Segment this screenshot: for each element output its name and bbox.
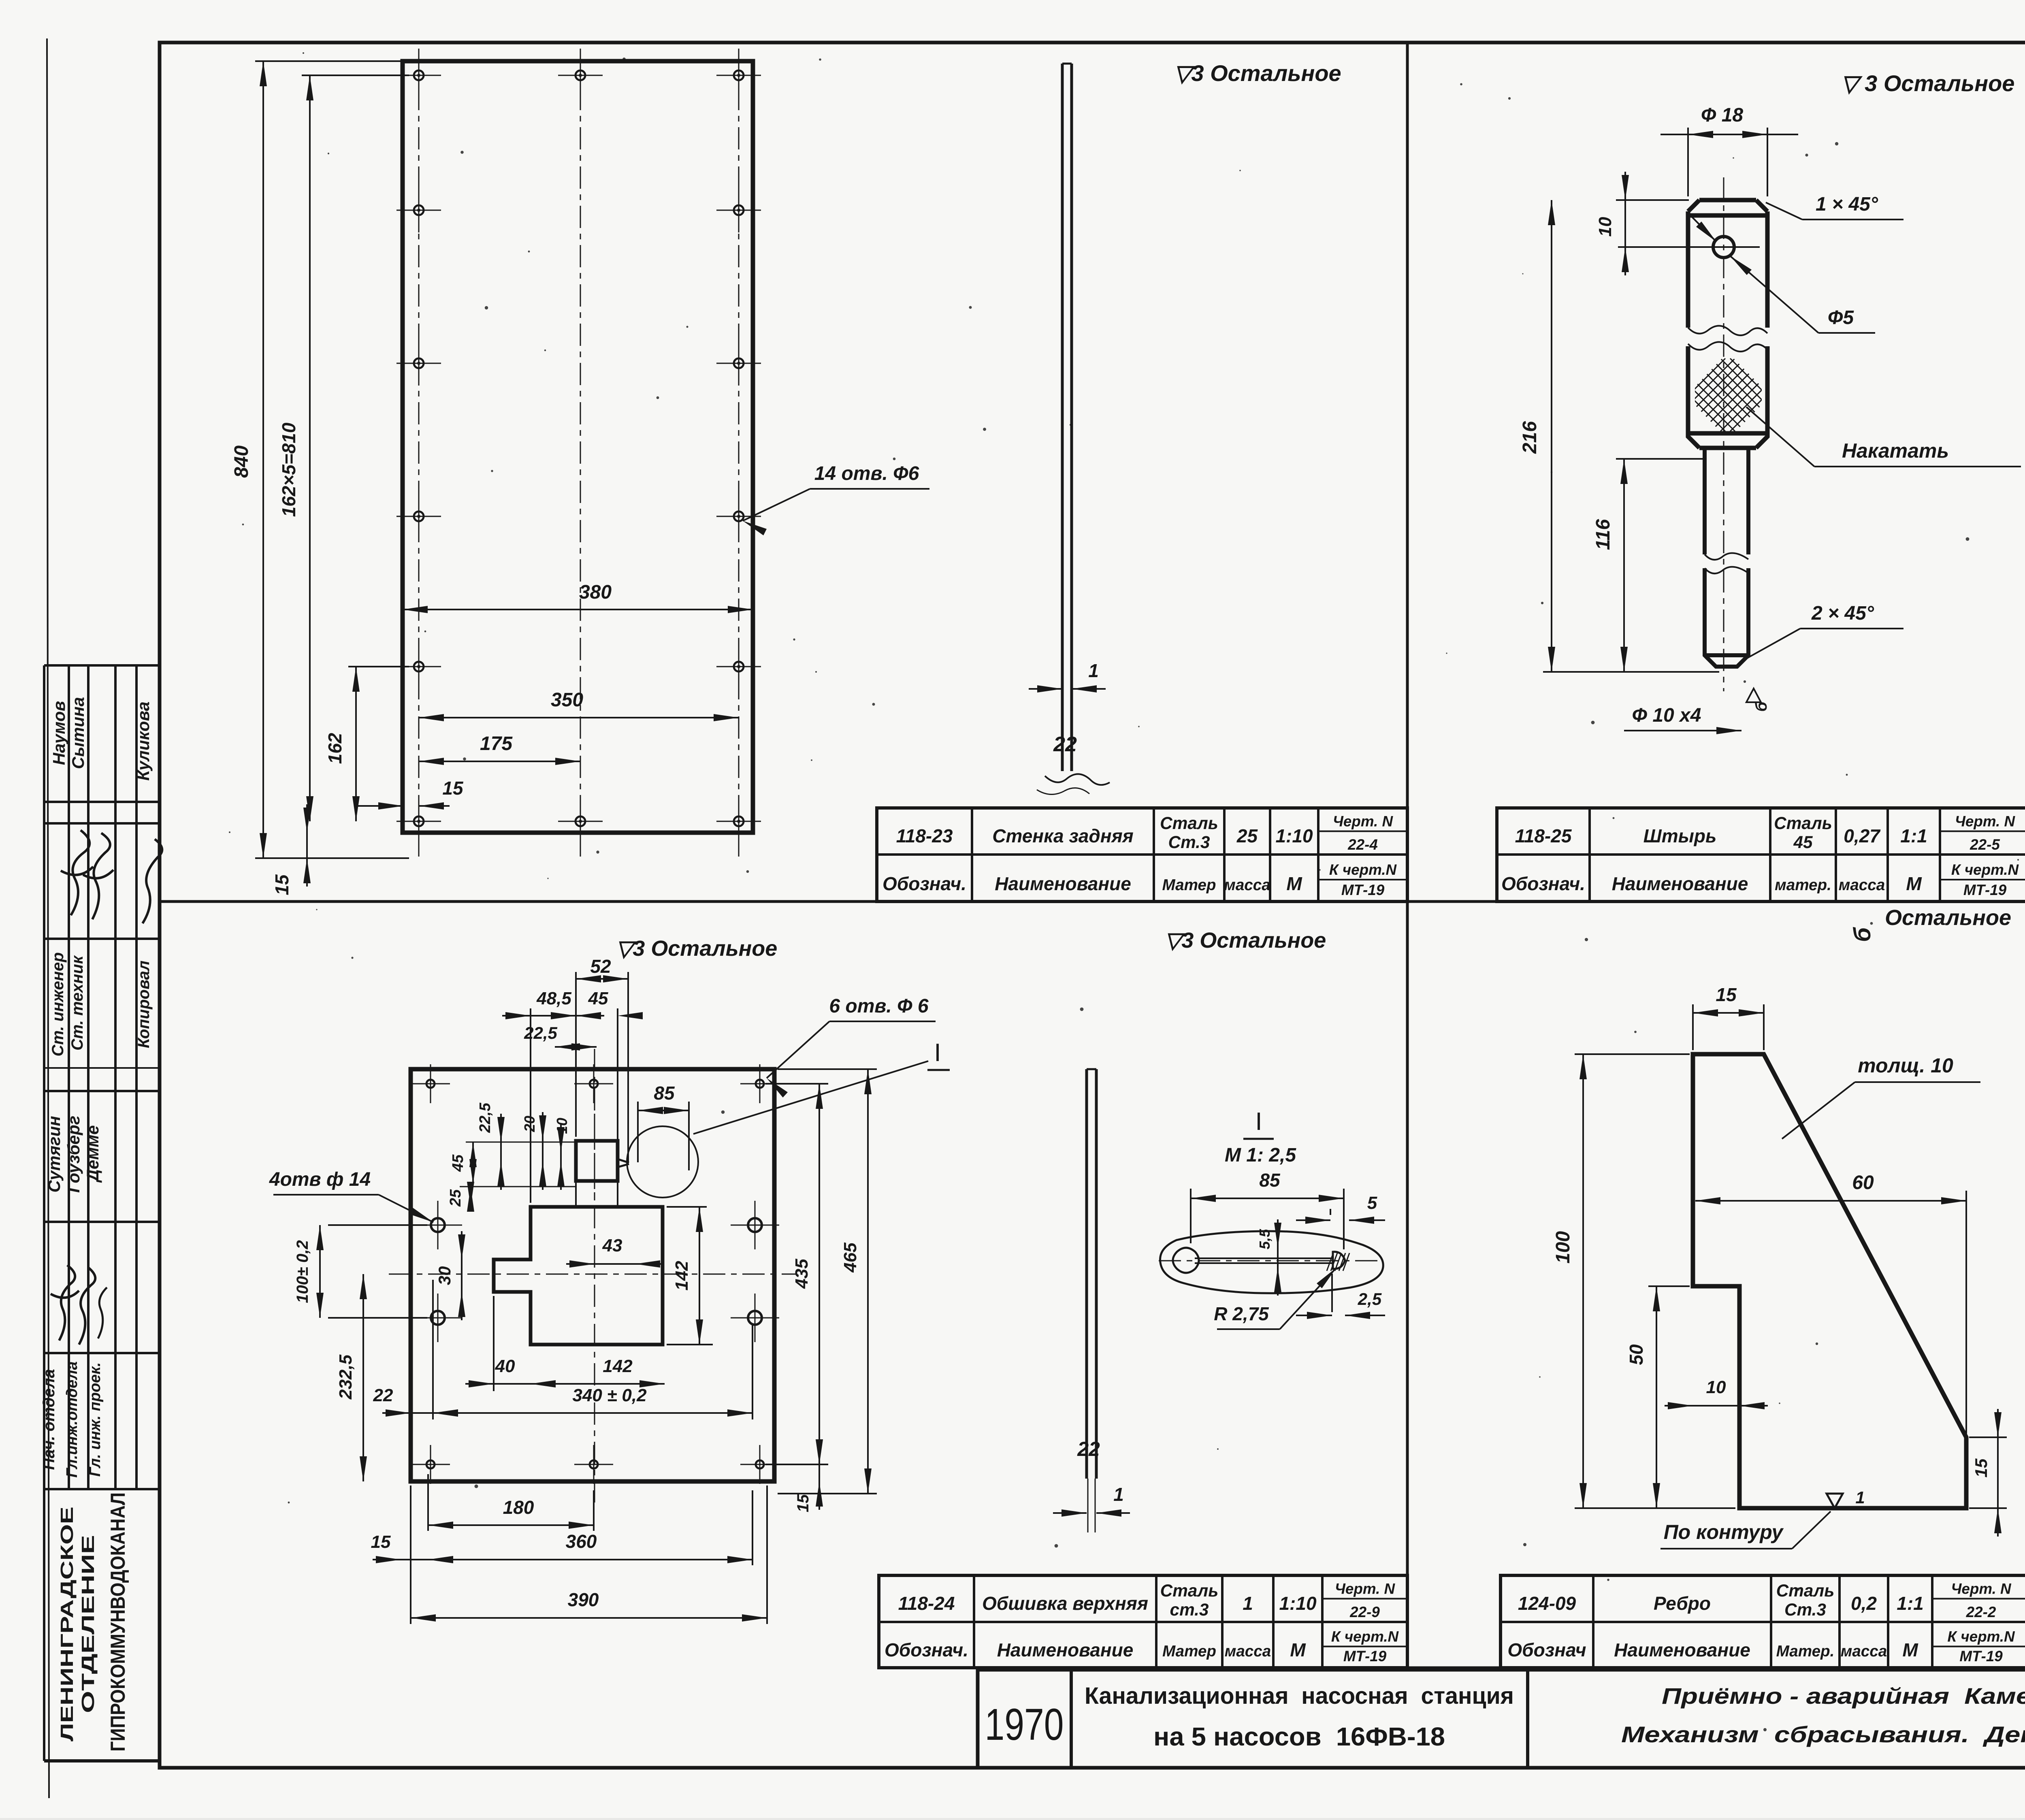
svg-text:масса: масса: [1225, 1643, 1271, 1660]
dimension 30: [461, 1260, 463, 1292]
svg-text:Штырь: Штырь: [1643, 825, 1717, 846]
svg-text:на 5 насосов 16ФВ-18: на 5 насосов 16ФВ-18: [1153, 1722, 1445, 1751]
svg-text:25: 25: [447, 1189, 464, 1207]
slot projection lines: [575, 1181, 577, 1207]
stamp table 118-25: [1497, 808, 2025, 901]
svg-text:МТ-19: МТ-19: [1959, 1648, 2003, 1664]
detail I view blob: [1160, 1231, 1383, 1293]
dimension 380: [403, 609, 753, 610]
svg-text:▽3 Остальное: ▽3 Остальное: [616, 936, 778, 961]
dimension 232,5: [362, 1274, 364, 1481]
side view thickness 1: [1053, 1512, 1087, 1514]
svg-text:Обшивка верхняя: Обшивка верхняя: [982, 1593, 1148, 1614]
dimension 142 horizontal: [531, 1383, 665, 1385]
dimension 162: [348, 666, 409, 667]
svg-text:Наименование: Наименование: [995, 873, 1131, 894]
svg-text:масса: масса: [1839, 876, 1885, 894]
plate 118-24 side view: [1085, 1069, 1088, 1479]
dimension 15 bottom horizontal: [356, 805, 403, 807]
svg-text:118-23: 118-23: [896, 825, 953, 846]
svg-text:R 2,75: R 2,75: [1214, 1303, 1269, 1324]
dimension 22: [411, 1412, 433, 1414]
svg-text:Обознач.: Обознач.: [882, 873, 966, 894]
plate 118-24 small holes f6: [426, 1080, 435, 1088]
svg-text:Черт. N: Черт. N: [1951, 1581, 2012, 1597]
svg-text:Наименование: Наименование: [1614, 1639, 1750, 1660]
svg-text:124-09: 124-09: [1518, 1593, 1576, 1614]
svg-text:10: 10: [1706, 1377, 1726, 1397]
detail dim 55: [1277, 1248, 1279, 1267]
detail I slit: [1173, 1248, 1199, 1273]
bottom row divider above title block: [879, 1667, 2025, 1669]
svg-text:К черт.N: К черт.N: [1331, 1628, 1399, 1645]
svg-text:1970: 1970: [985, 1700, 1064, 1750]
svg-text:б: б: [1849, 927, 1876, 942]
svg-text:15: 15: [794, 1494, 812, 1512]
svg-text:Нач. отдела: Нач. отдела: [40, 1369, 58, 1470]
svg-text:15: 15: [1716, 984, 1737, 1005]
sidebar signatures row 1: [61, 830, 93, 915]
dimension 465: [778, 1068, 877, 1070]
dimension 48,5 and 45: [530, 1008, 531, 1203]
svg-text:К черт.N: К черт.N: [1951, 861, 2019, 878]
svg-text:85: 85: [654, 1083, 675, 1104]
svg-text:22-5: 22-5: [1970, 836, 2000, 853]
pin break line 2: [1705, 553, 1748, 560]
dimension 175: [419, 761, 580, 762]
svg-text:Демме: Демме: [83, 1125, 102, 1183]
dimension 43: [595, 1263, 635, 1265]
svg-text:Приёмно - аварийная Камера: Приёмно - аварийная Камера: [1662, 1683, 2025, 1709]
svg-text:15: 15: [271, 874, 292, 895]
svg-text:Матер: Матер: [1162, 876, 1216, 894]
dimension 85: [637, 1102, 639, 1162]
plate 118-23 holes 14 otv f6: [414, 70, 424, 80]
svg-text:МТ-19: МТ-19: [1343, 1648, 1387, 1664]
svg-text:232,5: 232,5: [336, 1354, 356, 1400]
title block box: [978, 1670, 2025, 1768]
svg-text:Ф 10 х4: Ф 10 х4: [1632, 705, 1701, 726]
svg-text:118-24: 118-24: [898, 1593, 955, 1614]
svg-text:175: 175: [480, 733, 513, 754]
svg-text:Наименование: Наименование: [1612, 873, 1748, 894]
plate 118-24 centerlines: [594, 1049, 595, 1502]
svg-text:1: 1: [1243, 1593, 1253, 1614]
svg-text:1:10: 1:10: [1279, 1593, 1316, 1614]
svg-text:142: 142: [603, 1356, 633, 1376]
dimension 52: [575, 972, 577, 1137]
vertical divider 1: [1406, 43, 1409, 1668]
left small dims cluster: [466, 1142, 576, 1143]
svg-text:Наименование: Наименование: [997, 1639, 1134, 1660]
pin shaft lower with chamfer tip: [1705, 568, 1748, 667]
svg-text:Черт. N: Черт. N: [1335, 1581, 1396, 1597]
svg-text:360: 360: [566, 1531, 597, 1552]
svg-text:1:1: 1:1: [1897, 1593, 1923, 1614]
stamp table 118-24: [879, 1575, 1407, 1668]
rib dim 10: [1693, 1405, 1739, 1407]
svg-text:Сталь: Сталь: [1776, 1581, 1835, 1600]
svg-text:15: 15: [442, 778, 464, 799]
detail I circle: [627, 1126, 698, 1198]
rib dim 15 right: [1969, 1436, 2007, 1438]
plate 118-23 outline: [403, 61, 753, 833]
svg-text:б: б: [1752, 701, 1770, 712]
dimension 435: [765, 1083, 828, 1085]
pin head upper part: [1688, 200, 1767, 328]
svg-text:390: 390: [568, 1589, 599, 1610]
svg-text:Гоузберг: Гоузберг: [64, 1116, 83, 1193]
dimension 116: [1616, 458, 1703, 460]
svg-text:Обознач: Обознач: [1507, 1639, 1586, 1660]
sidebar stamp outer box: [44, 665, 160, 1761]
svg-text:40: 40: [495, 1356, 515, 1376]
rib 124-09 outline: [1693, 1054, 1966, 1508]
svg-text:10: 10: [1595, 217, 1615, 237]
svg-text:15: 15: [371, 1532, 391, 1552]
svg-text:ст.3: ст.3: [1170, 1600, 1209, 1619]
svg-text:матер.: матер.: [1775, 876, 1831, 894]
svg-text:ОТДЕЛЕНИЕ: ОТДЕЛЕНИЕ: [78, 1535, 98, 1713]
svg-text:толщ. 10: толщ. 10: [1858, 1054, 1953, 1077]
dimension 340: [432, 1280, 434, 1419]
dimension 840: [255, 60, 405, 62]
stamp table 118-23: [877, 808, 1407, 901]
dimension 180: [427, 1474, 429, 1531]
dimension 10: [1616, 199, 1689, 201]
rib weld mark: [1827, 1494, 1843, 1508]
svg-text:22-9: 22-9: [1349, 1604, 1380, 1620]
svg-text:Ст. техник: Ст. техник: [68, 955, 86, 1051]
svg-text:22-4: 22-4: [1347, 836, 1378, 853]
svg-text:30: 30: [435, 1266, 454, 1285]
svg-text:М: М: [1290, 1639, 1306, 1660]
svg-text:22,5: 22,5: [524, 1023, 557, 1042]
svg-text:5,5: 5,5: [1256, 1229, 1273, 1249]
svg-text:435: 435: [792, 1259, 812, 1289]
scan speckles: [969, 306, 972, 309]
svg-text:25: 25: [1236, 825, 1258, 846]
svg-text:22-2: 22-2: [1966, 1604, 1996, 1620]
svg-text:По контуру: По контуру: [1664, 1521, 1784, 1543]
rib dim 15 top: [1692, 1004, 1694, 1050]
dimension 360: [752, 1490, 753, 1565]
svg-text:1:10: 1:10: [1275, 825, 1313, 846]
svg-text:465: 465: [840, 1242, 860, 1273]
rib dim 60: [1965, 1191, 1967, 1434]
svg-text:Обознач.: Обознач.: [1501, 873, 1585, 894]
svg-text:Черт. N: Черт. N: [1333, 813, 1394, 830]
sidebar stamp horizontal lines: [44, 801, 160, 803]
dimension 40: [493, 1296, 495, 1391]
svg-text:52: 52: [590, 956, 611, 977]
svg-text:▽3 Остальное: ▽3 Остальное: [1174, 60, 1341, 86]
svg-text:100± 0,2: 100± 0,2: [294, 1240, 311, 1303]
roughness mark near pin bottom: [1746, 688, 1761, 702]
svg-text:К черт.N: К черт.N: [1329, 861, 1397, 878]
sidebar stamp vertical lines: [68, 665, 70, 1489]
svg-text:Куликова: Куликова: [134, 701, 153, 781]
pin head lower part with knurl: [1688, 346, 1767, 448]
pin hole F5: [1713, 237, 1734, 258]
svg-text:1: 1: [1855, 1488, 1865, 1507]
svg-text:М: М: [1906, 873, 1922, 894]
svg-text:216: 216: [1519, 421, 1541, 454]
svg-text:380: 380: [579, 582, 612, 603]
svg-text:М: М: [1286, 873, 1302, 894]
svg-text:1:1: 1:1: [1900, 825, 1927, 846]
plate 118-24 outline: [411, 1069, 774, 1481]
svg-text:6 отв. Ф 6: 6 отв. Ф 6: [829, 995, 929, 1017]
plate 118-24 holes f14: [431, 1218, 445, 1232]
svg-text:22,5: 22,5: [477, 1102, 494, 1133]
svg-text:48,5: 48,5: [536, 989, 571, 1008]
svg-text:2,5: 2,5: [1358, 1289, 1382, 1309]
svg-text:60: 60: [1852, 1172, 1874, 1193]
svg-text:Сталь: Сталь: [1160, 814, 1218, 833]
dimension 162x5=810: [302, 75, 409, 76]
dimension 350: [419, 717, 739, 718]
svg-text:▽ 3 Остальное: ▽ 3 Остальное: [1841, 70, 2015, 96]
svg-text:М: М: [1902, 1639, 1918, 1660]
stamp table 124-09: [1501, 1575, 2025, 1668]
svg-text:22: 22: [1077, 1438, 1100, 1460]
svg-text:2 × 45°: 2 × 45°: [1811, 603, 1874, 624]
dimension 100: [328, 1224, 427, 1226]
svg-text:Ст.3: Ст.3: [1168, 833, 1210, 852]
svg-text:масса: масса: [1841, 1643, 1887, 1660]
svg-text:180: 180: [503, 1497, 534, 1518]
svg-text:Ф 18: Ф 18: [1701, 104, 1744, 126]
detail dim 5: [1330, 1209, 1331, 1215]
rib dim 100: [1575, 1053, 1690, 1055]
svg-text:340 ± 0,2: 340 ± 0,2: [572, 1385, 647, 1405]
svg-text:85: 85: [1259, 1170, 1281, 1191]
svg-text:Накатать: Накатать: [1842, 439, 1949, 462]
svg-text:116: 116: [1592, 519, 1614, 550]
svg-text:ГИПРОКОММУНВОДОКАНАЛ: ГИПРОКОММУНВОДОКАНАЛ: [107, 1492, 129, 1752]
svg-text:10: 10: [554, 1118, 570, 1134]
horizontal mid divider: [160, 900, 2025, 903]
svg-text:50: 50: [1626, 1344, 1647, 1365]
svg-text:Сталь: Сталь: [1160, 1581, 1219, 1600]
sidebar signatures row 2: [51, 1265, 79, 1340]
plate 118-24 cutout: [494, 1207, 663, 1345]
dimension 390: [410, 1485, 411, 1624]
svg-text:162: 162: [324, 733, 345, 764]
detail dim 2,5: [1331, 1274, 1333, 1312]
svg-text:350: 350: [551, 689, 583, 711]
svg-text:Матер.: Матер.: [1776, 1643, 1835, 1660]
svg-text:118-25: 118-25: [1515, 825, 1572, 846]
svg-text:15: 15: [1972, 1458, 1991, 1477]
svg-text:1 × 45°: 1 × 45°: [1816, 194, 1878, 215]
svg-text:Сытина: Сытина: [68, 697, 87, 769]
svg-text:5: 5: [1367, 1193, 1377, 1213]
svg-text:▽3 Остальное: ▽3 Остальное: [1165, 928, 1326, 953]
dimension 22,5 top: [555, 1046, 597, 1048]
dimension F18: [1687, 128, 1689, 196]
svg-text:Остальное: Остальное: [1885, 906, 2011, 930]
svg-text:22: 22: [1053, 733, 1077, 756]
rib dim 50: [1648, 1285, 1690, 1287]
detail dims 85: [1190, 1189, 1192, 1243]
pin knurl hatch: [1633, 358, 1823, 431]
dimension 15 bottom left vertical: [306, 833, 308, 858]
dimension 15 bottom: [401, 1559, 428, 1560]
pin shaft upper: [1703, 448, 1707, 554]
svg-text:Обознач.: Обознач.: [885, 1639, 968, 1660]
pin break line 1: [1688, 326, 1767, 335]
svg-text:масса: масса: [1224, 876, 1270, 894]
svg-text:Черт. N: Черт. N: [1955, 813, 2016, 830]
svg-text:45: 45: [588, 989, 608, 1008]
svg-text:100: 100: [1552, 1231, 1574, 1264]
svg-text:162×5=810: 162×5=810: [278, 422, 299, 517]
svg-text:Стенка задняя: Стенка задняя: [992, 825, 1134, 846]
svg-text:45: 45: [1793, 833, 1813, 852]
dimension 15 bottom right: [819, 1464, 820, 1481]
svg-text:Ф5: Ф5: [1828, 307, 1854, 328]
pin centerline: [1723, 177, 1724, 691]
dimension 142 vertical: [667, 1206, 707, 1208]
svg-text:М 1: 2,5: М 1: 2,5: [1225, 1144, 1296, 1166]
paper fold line: [47, 38, 49, 1798]
svg-text:840: 840: [231, 445, 252, 478]
svg-text:20: 20: [521, 1116, 538, 1132]
svg-text:Матер: Матер: [1162, 1643, 1216, 1660]
svg-text:0,27: 0,27: [1844, 825, 1881, 846]
svg-text:142: 142: [672, 1261, 692, 1291]
svg-text:22: 22: [373, 1385, 393, 1405]
svg-text:К черт.N: К черт.N: [1947, 1628, 2015, 1645]
svg-text:1: 1: [1113, 1484, 1124, 1505]
svg-text:Механизм сбрасывания. Детали: Механизм сбрасывания. Детали.: [1621, 1722, 2025, 1747]
plate 118-23 side view thin bar: [1061, 64, 1064, 771]
dimension 216: [1543, 671, 1719, 673]
svg-text:ЛЕНИНГРАДСКОЕ: ЛЕНИНГРАДСКОЕ: [57, 1507, 77, 1741]
svg-text:1: 1: [1088, 660, 1099, 681]
svg-text:43: 43: [602, 1236, 622, 1255]
svg-text:I: I: [1255, 1108, 1262, 1136]
svg-text:I: I: [934, 1039, 941, 1067]
svg-text:Копировал: Копировал: [135, 961, 153, 1049]
svg-text:Канализационная насосная ста: Канализационная насосная станция: [1085, 1683, 1514, 1709]
svg-text:Гл. инж. проек.: Гл. инж. проек.: [87, 1362, 104, 1477]
plate 118-24 top slot: [576, 1141, 618, 1181]
svg-text:Наумов: Наумов: [49, 701, 68, 765]
side view thickness dim 1: [1029, 688, 1062, 690]
svg-text:Сутягин: Сутягин: [45, 1116, 64, 1192]
saw slit: [618, 1159, 629, 1167]
svg-text:4отв ф 14: 4отв ф 14: [269, 1169, 371, 1190]
svg-text:Ст. инженер: Ст. инженер: [49, 952, 67, 1056]
svg-text:Ребро: Ребро: [1654, 1593, 1711, 1614]
svg-text:45: 45: [450, 1154, 467, 1172]
svg-text:14 отв. Ф6: 14 отв. Ф6: [814, 463, 919, 484]
svg-text:0,2: 0,2: [1851, 1593, 1877, 1614]
svg-text:МТ-19: МТ-19: [1963, 882, 2007, 898]
svg-text:Гл.инж.отдела: Гл.инж.отдела: [64, 1361, 81, 1477]
svg-text:Сталь: Сталь: [1774, 814, 1832, 833]
svg-text:МТ-19: МТ-19: [1341, 882, 1385, 898]
svg-text:Ст.3: Ст.3: [1784, 1600, 1826, 1619]
plate 118-23 centerlines: [418, 49, 420, 859]
